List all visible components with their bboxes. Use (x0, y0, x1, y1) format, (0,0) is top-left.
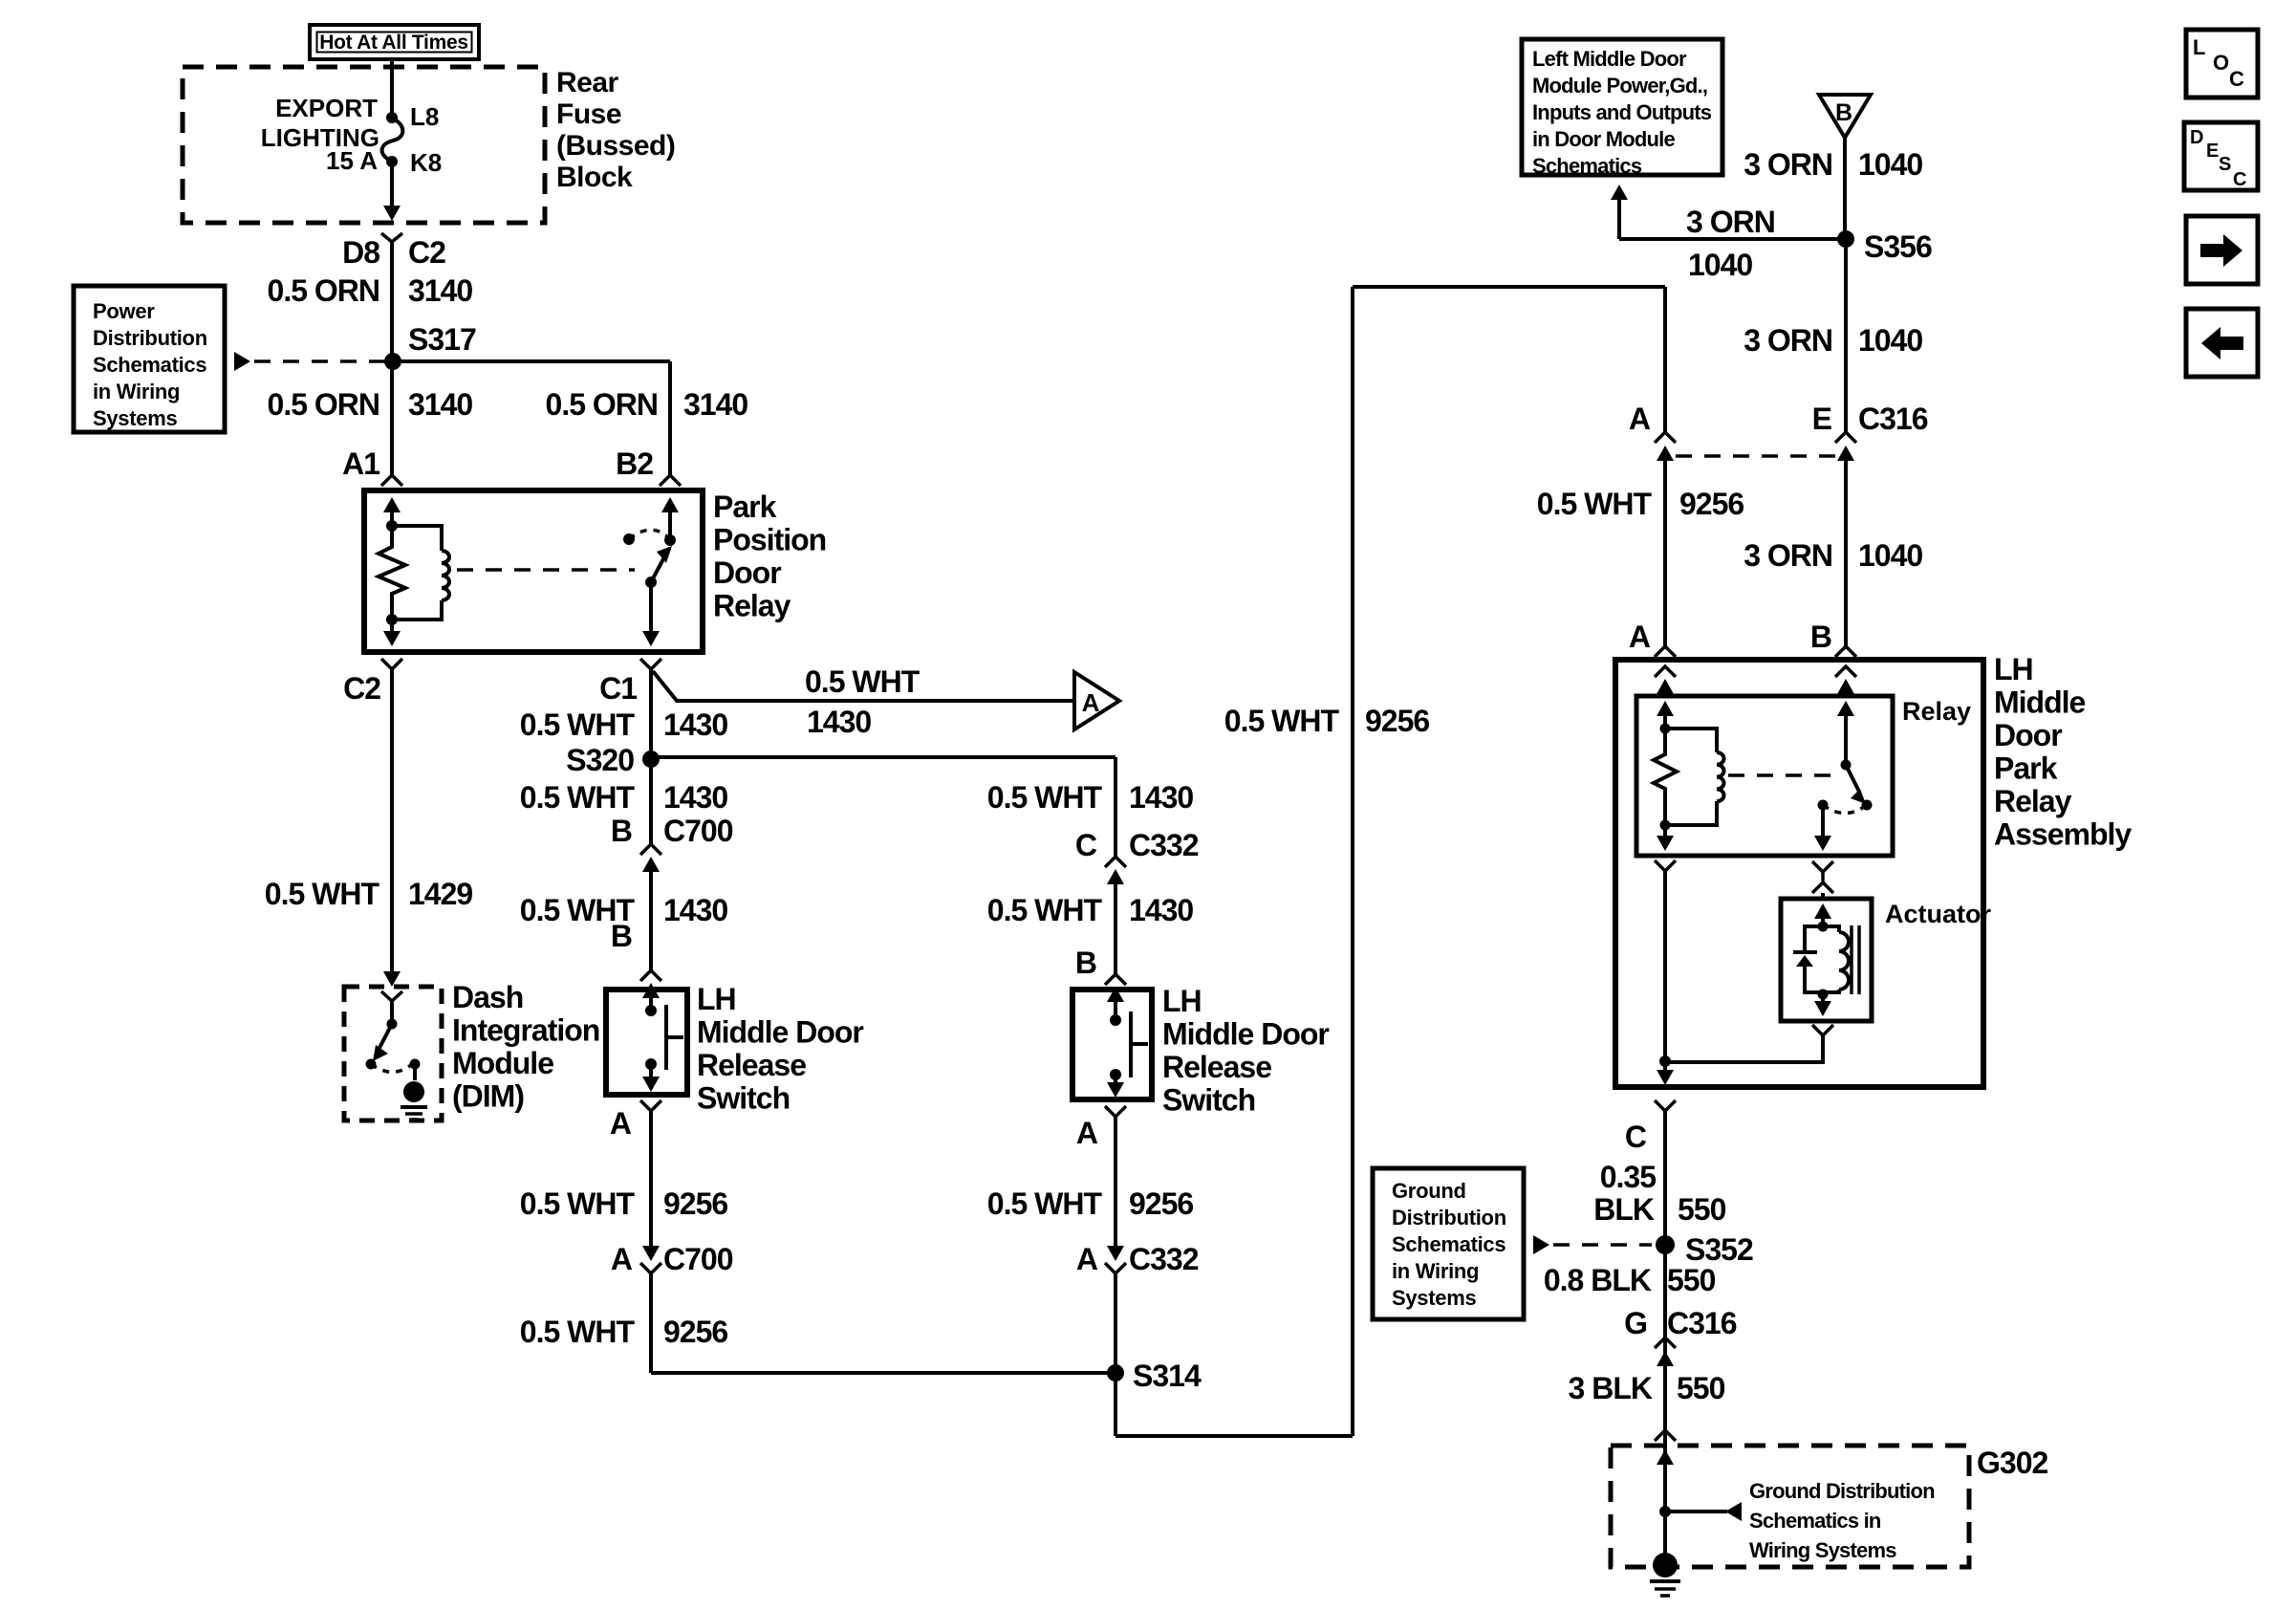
svg-text:550: 550 (1677, 1371, 1725, 1405)
ground G302 symbol (1650, 1553, 1680, 1596)
svg-text:(DIM): (DIM) (452, 1079, 524, 1114)
wire: C2 down to DIM (383, 669, 401, 987)
svg-text:C332: C332 (1129, 828, 1199, 862)
node S356 (1837, 229, 1932, 264)
connector chevron below relay box (coil side) (1655, 860, 1676, 871)
junction dot (1659, 1055, 1671, 1067)
svg-text:0.5 WHT: 0.5 WHT (987, 780, 1103, 815)
label: Rear Fuse (Bussed) Block (556, 67, 675, 193)
actuator diode (1793, 926, 1823, 992)
svg-text:3140: 3140 (408, 387, 472, 422)
DIM switch (366, 1001, 421, 1072)
svg-text:L8: L8 (410, 102, 439, 131)
svg-text:Inputs and Outputs: Inputs and Outputs (1532, 100, 1712, 124)
svg-text:Release: Release (697, 1048, 806, 1082)
svg-text:Integration: Integration (452, 1013, 599, 1048)
svg-text:Dash: Dash (452, 980, 523, 1014)
svg-text:550: 550 (1678, 1192, 1726, 1227)
reference arrow: Ground Distribution Schematics (1533, 1235, 1652, 1254)
svg-text:0.5 WHT: 0.5 WHT (1537, 487, 1653, 521)
connector chevron at B2 (660, 475, 681, 486)
component: Dash Integration Module (DIM) dashed box (344, 987, 442, 1120)
svg-text:1430: 1430 (807, 705, 871, 739)
legend box LOC (2186, 30, 2258, 98)
G302 junction dot (1659, 1506, 1671, 1517)
svg-text:A: A (1082, 688, 1100, 717)
svg-text:Ground Distribution: Ground Distribution (1749, 1479, 1935, 1503)
svg-text:Systems: Systems (93, 406, 177, 430)
legend box DESC (2184, 122, 2258, 190)
svg-text:0.5 ORN: 0.5 ORN (268, 273, 379, 308)
wire: long 9256 riser (1353, 287, 1665, 1436)
svg-text:E: E (2206, 141, 2219, 162)
switch contacts (left switch) (645, 1005, 683, 1070)
svg-text:1430: 1430 (1129, 780, 1193, 815)
wire: fuse output with down arrow (383, 162, 401, 221)
DIM internal ground (401, 1064, 427, 1120)
svg-text:Relay: Relay (1902, 697, 1971, 726)
wire: battery feed into fuse (390, 59, 394, 118)
relay switch (inner) (1818, 760, 1873, 814)
node S317 (384, 322, 476, 370)
G302 reference arrow (1665, 1502, 1742, 1521)
svg-text:Switch: Switch (697, 1081, 790, 1116)
in-line connector C700 lower (640, 1246, 661, 1373)
node S320 (566, 743, 660, 777)
svg-text:C700: C700 (663, 1242, 733, 1276)
svg-text:Schematics: Schematics (1532, 154, 1642, 178)
component: LH Middle Door Park Relay Assembly box (1615, 660, 1983, 1087)
svg-text:Park: Park (713, 490, 777, 524)
wire: S320 branch corner down (right switch column) (1114, 757, 1117, 858)
svg-text:C316: C316 (1667, 1306, 1737, 1340)
wire: coil side down to junction (1663, 871, 1667, 1061)
wire label 3 ORN 1040 (1744, 147, 1922, 182)
svg-text:Actuator: Actuator (1885, 900, 1991, 928)
pin G / connector C316 labels (1624, 1306, 1737, 1340)
pin A / connector C332 labels (1076, 1242, 1199, 1276)
svg-text:1040: 1040 (1858, 538, 1922, 573)
svg-text:Door: Door (1994, 718, 2062, 752)
svg-text:B2: B2 (616, 446, 653, 481)
svg-text:Systems: Systems (1392, 1286, 1476, 1310)
svg-text:K8: K8 (410, 148, 442, 177)
wire label 0.5 WHT 1430 (987, 780, 1194, 815)
pin C / connector C332 labels (1075, 828, 1199, 862)
switch entry connector (right) (1105, 974, 1126, 1020)
wire label 0.5 ORN 3140 (left branch) (268, 387, 473, 422)
reference box: Left Middle Door Module (1522, 39, 1722, 178)
connector chevron below right switch (1105, 1106, 1126, 1117)
svg-text:1430: 1430 (663, 707, 727, 742)
wire label 0.5 WHT 1430 (520, 893, 728, 927)
svg-text:1430: 1430 (663, 893, 727, 927)
svg-text:0.5 WHT: 0.5 WHT (265, 877, 380, 911)
legend box right arrow (2186, 216, 2258, 284)
wire: S320 down (649, 759, 653, 845)
svg-text:BLK: BLK (1593, 1192, 1655, 1227)
reference box: Power Distribution Schematics in Wiring Systems (74, 286, 225, 432)
svg-text:Release: Release (1162, 1050, 1271, 1084)
in-line connector C700 (640, 844, 661, 970)
svg-text:0.5 WHT: 0.5 WHT (520, 780, 636, 815)
connector chevron below assembly (pin C) (1655, 1100, 1676, 1111)
svg-text:C700: C700 (663, 814, 733, 848)
pin B / connector C700 labels (611, 814, 733, 848)
svg-text:1429: 1429 (408, 877, 472, 911)
relay actuation dashed link (457, 568, 635, 572)
svg-text:1430: 1430 (663, 780, 727, 815)
svg-text:Distribution: Distribution (93, 326, 207, 350)
in-line connector C316 pin E (1835, 432, 1856, 649)
wire: S356 branch to module reference arrow (1611, 185, 1846, 239)
svg-text:A: A (1076, 1242, 1098, 1276)
svg-text:Relay: Relay (713, 589, 791, 623)
wire label 0.5 WHT 1429 (265, 877, 473, 911)
svg-text:Middle Door: Middle Door (1162, 1017, 1329, 1052)
relay resistor (inner) (1654, 724, 1677, 826)
svg-text:0.5 WHT: 0.5 WHT (520, 707, 636, 742)
svg-text:C: C (1075, 828, 1097, 862)
wire: 0.5 ORN 3140 to S317 (390, 242, 394, 361)
switch contacts (right switch) (1110, 1012, 1148, 1080)
label: Dash Integration Module (DIM) (452, 980, 599, 1114)
svg-text:E: E (1812, 402, 1832, 436)
component: LH Middle Door Release Switch (right) (1072, 990, 1152, 1099)
dashed connector link C316 (1676, 454, 1835, 458)
wire label 0.5 ORN 3140 (right branch) (546, 387, 748, 422)
wire label 0.5 WHT 9256 (riser) (1224, 704, 1430, 738)
wire: down to C316 pin A (1663, 287, 1667, 432)
wire label 0.5 WHT 9256 (520, 1315, 728, 1349)
off-page triangle A (1074, 672, 1119, 729)
wire label 0.5 WHT 9256 (1537, 487, 1744, 521)
svg-text:S: S (2219, 154, 2231, 175)
svg-text:1430: 1430 (1129, 893, 1193, 927)
actuator input arrow (1814, 903, 1831, 926)
label box: Hot At All Times (310, 25, 479, 59)
svg-text:C332: C332 (1129, 1242, 1199, 1276)
reference box: Ground Distribution Schematics in Wiring Systems (1373, 1168, 1524, 1319)
svg-text:B: B (1810, 620, 1831, 654)
svg-text:Schematics: Schematics (1392, 1232, 1505, 1256)
relay switch (623, 530, 676, 588)
svg-text:0.35: 0.35 (1600, 1160, 1656, 1194)
svg-text:Distribution: Distribution (1392, 1206, 1506, 1229)
connector chevron at A1 (381, 475, 402, 486)
svg-text:S356: S356 (1864, 229, 1932, 264)
svg-text:3 ORN: 3 ORN (1744, 147, 1832, 182)
svg-text:9256: 9256 (1129, 1186, 1193, 1221)
wire label 3 ORN 1040 (1744, 538, 1922, 573)
connector chevron below actuator (1812, 1025, 1833, 1035)
component: Actuator box (1781, 899, 1872, 1021)
in-line connector C332 (1105, 857, 1126, 974)
in-line connector C332 lower (1105, 1246, 1126, 1436)
svg-text:9256: 9256 (1679, 487, 1744, 521)
component: Relay inner box (1636, 696, 1893, 856)
svg-text:C2: C2 (408, 235, 445, 270)
wire: S320 branch right (651, 755, 1116, 759)
svg-text:S320: S320 (566, 743, 634, 777)
svg-text:A: A (1629, 620, 1651, 654)
wire: B triangle down to S356 (1843, 138, 1847, 239)
svg-text:1040: 1040 (1858, 323, 1922, 358)
svg-text:A1: A1 (342, 446, 379, 481)
relay switch output arrow (inner) (1814, 805, 1831, 851)
svg-text:Middle Door: Middle Door (697, 1015, 863, 1050)
svg-text:Relay: Relay (1994, 784, 2072, 818)
off-page triangle B (1819, 95, 1871, 138)
relay resistor (379, 520, 405, 620)
component: Park Position Door Relay box (364, 490, 703, 652)
relay coil (386, 526, 449, 625)
svg-text:A: A (611, 1242, 633, 1276)
relay coil bottom arrow (383, 620, 401, 646)
mated connector below relay box (switch side) (1812, 861, 1833, 899)
svg-text:O: O (2213, 51, 2229, 75)
label: Ground Distribution Schematics in Wiring Systems (G302) (1749, 1479, 1935, 1562)
component: LH Middle Door Release Switch (left) (606, 990, 687, 1095)
svg-text:0.5 WHT: 0.5 WHT (805, 664, 921, 699)
relay switch pin B2 arrow (661, 497, 679, 540)
svg-text:S317: S317 (408, 322, 476, 357)
svg-text:LH: LH (1162, 984, 1202, 1018)
switch bottom arrow (642, 1064, 660, 1092)
assembly entry chevron B (1835, 646, 1856, 657)
assembly entry chevron A (1655, 646, 1676, 657)
node S352 (1656, 1232, 1753, 1267)
wire: right switch A down (1114, 1117, 1117, 1248)
svg-text:0.5 WHT: 0.5 WHT (520, 1186, 636, 1221)
svg-text:in Wiring: in Wiring (93, 380, 180, 403)
svg-text:C: C (2229, 67, 2244, 91)
wire: to S314 (651, 1371, 1116, 1375)
svg-text:B: B (611, 919, 632, 953)
svg-text:A: A (1629, 402, 1651, 436)
svg-text:A: A (610, 1106, 632, 1141)
svg-text:3 ORN: 3 ORN (1686, 205, 1775, 239)
node S314 (1107, 1359, 1202, 1393)
svg-text:0.5 WHT: 0.5 WHT (987, 893, 1103, 927)
reference arrow: Power Distribution Schematics (234, 352, 386, 371)
actuator core lines (1852, 925, 1859, 994)
wire: pin C down to ground (1663, 1111, 1667, 1565)
svg-text:3 BLK: 3 BLK (1569, 1371, 1653, 1405)
wire label 0.5 ORN 3140 (268, 273, 473, 308)
wire label 0.5 WHT 9256 (987, 1186, 1194, 1221)
svg-text:Ground: Ground (1392, 1179, 1466, 1203)
connector chevron at C2 (381, 659, 402, 669)
connector: fuse block output chevron (381, 233, 402, 242)
wire label 0.8 BLK 550 (1544, 1263, 1716, 1297)
connector chevron above G302 (1655, 1430, 1676, 1441)
svg-text:in Door Module: in Door Module (1532, 127, 1675, 151)
svg-text:Park: Park (1994, 751, 2058, 786)
svg-text:1040: 1040 (1688, 248, 1752, 282)
pin A / connector C700 labels (611, 1242, 733, 1276)
switch entry connector (640, 970, 661, 1011)
wire: bottom run to long riser (1116, 1434, 1353, 1438)
svg-text:Hot At All Times: Hot At All Times (319, 32, 467, 54)
svg-text:in Wiring: in Wiring (1392, 1259, 1479, 1283)
svg-text:Switch: Switch (1162, 1083, 1255, 1118)
wire label 0.5 WHT 1430 (520, 780, 728, 815)
svg-text:Position: Position (713, 523, 826, 557)
pin E / connector C316 labels (1812, 402, 1928, 436)
svg-text:Module: Module (452, 1046, 553, 1080)
svg-text:Middle: Middle (1994, 685, 2086, 720)
svg-text:G302: G302 (1977, 1446, 2047, 1480)
svg-text:9256: 9256 (663, 1315, 727, 1349)
svg-text:15 A: 15 A (326, 146, 378, 175)
wire: S317 branch to B2 (392, 361, 670, 475)
svg-text:9256: 9256 (663, 1186, 727, 1221)
svg-text:9256: 9256 (1365, 704, 1429, 738)
svg-text:S314: S314 (1133, 1359, 1202, 1393)
svg-text:0.5 WHT: 0.5 WHT (520, 1315, 636, 1349)
assembly pin B internal connector (1835, 666, 1856, 696)
svg-text:S352: S352 (1685, 1232, 1753, 1267)
wire label 3 ORN 1040 (1744, 323, 1922, 358)
svg-text:Assembly: Assembly (1994, 817, 2132, 852)
svg-text:D: D (2190, 127, 2203, 148)
in-line connector C316 pin A (1655, 432, 1676, 649)
wire label 0.5 WHT 1430 (520, 707, 728, 742)
svg-text:C2: C2 (343, 671, 380, 706)
relay coil input arrow (1657, 701, 1674, 729)
svg-text:Fuse: Fuse (556, 98, 621, 130)
svg-text:LH: LH (1994, 652, 2033, 686)
wire: S356 down to C316 pin E (1844, 239, 1848, 432)
svg-text:C: C (1625, 1120, 1647, 1154)
wire label 0.5 WHT 1430 (987, 893, 1194, 927)
svg-text:Rear: Rear (556, 67, 619, 98)
connector chevron at C1 (640, 659, 661, 669)
svg-text:L: L (2193, 35, 2205, 59)
svg-text:0.5 ORN: 0.5 ORN (546, 387, 658, 422)
relay coil bottom arrow (inner) (1657, 825, 1674, 851)
svg-text:C1: C1 (599, 671, 637, 706)
svg-text:Module Power,Gd.,: Module Power,Gd., (1532, 74, 1707, 98)
svg-text:Door: Door (713, 555, 781, 590)
svg-text:G: G (1624, 1306, 1647, 1340)
svg-text:B: B (1075, 946, 1096, 980)
svg-text:B: B (611, 814, 632, 848)
svg-text:A: A (1076, 1116, 1098, 1150)
fuse EXPORT LIGHTING 15 A (261, 94, 403, 175)
svg-text:0.5 ORN: 0.5 ORN (268, 387, 379, 422)
svg-text:(Bussed): (Bussed) (556, 130, 675, 162)
component: Rear Fuse (Bussed) Block dashed box (183, 67, 545, 223)
wire: switch A down (649, 1111, 653, 1248)
svg-text:Schematics: Schematics (93, 353, 206, 377)
component: G302 dashed box (1611, 1446, 1969, 1567)
relay coil (inner) (1660, 729, 1724, 831)
assembly pin A internal connector (1655, 666, 1676, 696)
actuator coil (1818, 922, 1850, 1000)
svg-text:B: B (1835, 99, 1852, 126)
label: LH Middle Door Release Switch (right) (1162, 984, 1329, 1118)
wire label 3 BLK 550 (1569, 1371, 1725, 1405)
label: LH Middle Door Release Switch (697, 982, 863, 1116)
relay switch input arrow (inner) (1837, 701, 1854, 765)
svg-text:1040: 1040 (1858, 147, 1922, 182)
svg-text:3140: 3140 (408, 273, 472, 308)
svg-text:0.5 WHT: 0.5 WHT (1224, 704, 1340, 738)
svg-text:3 ORN: 3 ORN (1744, 323, 1832, 358)
svg-text:3 ORN: 3 ORN (1744, 538, 1832, 573)
wire: actuator to junction (1665, 1035, 1823, 1062)
label: Park Position Door Relay (713, 490, 826, 623)
svg-text:0.8 BLK: 0.8 BLK (1544, 1263, 1652, 1297)
svg-text:Left Middle Door: Left Middle Door (1532, 47, 1687, 71)
relay actuation dashed link (inner) (1728, 773, 1835, 777)
wire label 0.35 BLK 550 (1593, 1160, 1725, 1227)
svg-text:Block: Block (556, 162, 633, 193)
legend box left arrow (2186, 309, 2258, 377)
svg-text:Wiring Systems: Wiring Systems (1749, 1538, 1896, 1562)
svg-text:C316: C316 (1858, 402, 1928, 436)
svg-text:Power: Power (93, 299, 155, 323)
wire: junction to assembly pin C (1657, 1061, 1674, 1085)
svg-text:0.5 WHT: 0.5 WHT (987, 1186, 1103, 1221)
wire label 0.5 WHT 9256 (520, 1186, 728, 1221)
DIM input chevron (381, 991, 402, 1001)
label: LH Middle Door Park Relay Assembly (1994, 652, 2132, 852)
svg-text:EXPORT: EXPORT (275, 94, 378, 122)
svg-text:C: C (2233, 169, 2246, 190)
svg-text:Schematics in: Schematics in (1749, 1509, 1881, 1533)
relay switch bottom arrow (642, 582, 660, 646)
svg-text:3140: 3140 (683, 387, 747, 422)
svg-text:550: 550 (1667, 1263, 1716, 1297)
svg-text:LH: LH (697, 982, 736, 1016)
connector chevron below switch (640, 1100, 661, 1111)
relay coil pin A1 arrow (383, 497, 401, 526)
switch bottom arrow (right) (1107, 1075, 1124, 1098)
in-line connector C316 (ground) (1655, 1338, 1676, 1366)
wire: C1 down to S320 (649, 669, 653, 759)
actuator output arrow (1814, 994, 1831, 1016)
wire: C1 branch to triangle A (653, 671, 1074, 701)
G302 entry arrow (1657, 1449, 1674, 1465)
svg-text:D8: D8 (342, 235, 379, 270)
